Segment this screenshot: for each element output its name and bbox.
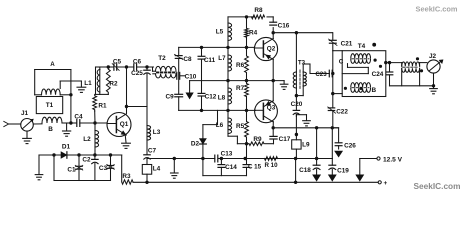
svg-text:T3: T3 xyxy=(298,60,306,67)
svg-text:R 10: R 10 xyxy=(264,162,278,169)
svg-text:L7: L7 xyxy=(218,55,226,62)
svg-text:L6: L6 xyxy=(216,122,224,129)
svg-text:R7: R7 xyxy=(236,85,245,92)
svg-text:T4: T4 xyxy=(358,43,366,50)
svg-text:Q2: Q2 xyxy=(267,46,276,53)
svg-text:D2: D2 xyxy=(191,141,200,148)
svg-text:T2: T2 xyxy=(158,55,166,62)
svg-text:C: C xyxy=(339,58,344,65)
svg-text:R5: R5 xyxy=(236,123,245,130)
svg-text:R9: R9 xyxy=(253,136,262,143)
svg-text:C4: C4 xyxy=(74,113,83,120)
svg-text:C18: C18 xyxy=(299,167,311,174)
svg-text:D1: D1 xyxy=(62,144,71,151)
svg-text:C6: C6 xyxy=(133,58,142,65)
svg-text:C 15: C 15 xyxy=(248,164,262,171)
svg-text:R1: R1 xyxy=(98,103,107,110)
svg-text:B: B xyxy=(372,87,377,94)
svg-text:R4: R4 xyxy=(249,30,258,37)
svg-text:L9: L9 xyxy=(302,141,310,148)
svg-text:C3: C3 xyxy=(99,165,108,172)
svg-text:C14: C14 xyxy=(225,164,237,171)
svg-text:J2: J2 xyxy=(429,53,437,60)
svg-text:L2: L2 xyxy=(83,136,91,143)
svg-text:SeekIC.com: SeekIC.com xyxy=(413,181,460,191)
svg-text:+: + xyxy=(384,180,388,187)
svg-text:R6: R6 xyxy=(236,62,245,69)
svg-text:C16: C16 xyxy=(278,23,290,30)
svg-text:C8: C8 xyxy=(183,56,192,63)
svg-text:C10: C10 xyxy=(185,74,197,81)
svg-text:C25: C25 xyxy=(131,70,143,77)
svg-text:L5: L5 xyxy=(216,29,224,36)
svg-text:C20: C20 xyxy=(291,101,303,108)
svg-text:R2: R2 xyxy=(109,81,118,88)
svg-text:C23: C23 xyxy=(315,71,327,78)
svg-text:L4: L4 xyxy=(153,166,161,173)
svg-text:C12: C12 xyxy=(205,94,217,101)
svg-text:C22: C22 xyxy=(336,109,348,116)
svg-text:C5: C5 xyxy=(113,58,122,65)
svg-text:SeekIC.com: SeekIC.com xyxy=(416,5,458,14)
svg-text:C26: C26 xyxy=(344,143,356,150)
svg-text:L3: L3 xyxy=(153,129,161,136)
svg-text:C2: C2 xyxy=(82,156,91,163)
svg-text:L1: L1 xyxy=(84,80,92,87)
svg-text:C19: C19 xyxy=(337,167,349,174)
svg-text:A: A xyxy=(50,61,55,68)
svg-text:Q1: Q1 xyxy=(120,121,129,128)
svg-text:C24: C24 xyxy=(372,71,384,78)
svg-text:B: B xyxy=(48,126,53,133)
svg-text:C1: C1 xyxy=(67,167,76,174)
svg-text:12.5 V: 12.5 V xyxy=(383,156,403,163)
svg-text:L8: L8 xyxy=(218,95,226,102)
svg-text:J1: J1 xyxy=(21,110,29,117)
svg-text:T1: T1 xyxy=(46,102,54,109)
svg-text:R3: R3 xyxy=(122,173,131,180)
svg-text:Q3: Q3 xyxy=(267,105,276,112)
svg-text:C13: C13 xyxy=(221,151,233,158)
svg-text:C9: C9 xyxy=(166,94,175,101)
svg-text:R8: R8 xyxy=(254,7,263,14)
svg-text:C21: C21 xyxy=(341,41,353,48)
svg-text:C17: C17 xyxy=(279,136,291,143)
svg-text:C7: C7 xyxy=(148,147,157,154)
svg-text:C11: C11 xyxy=(204,57,216,64)
